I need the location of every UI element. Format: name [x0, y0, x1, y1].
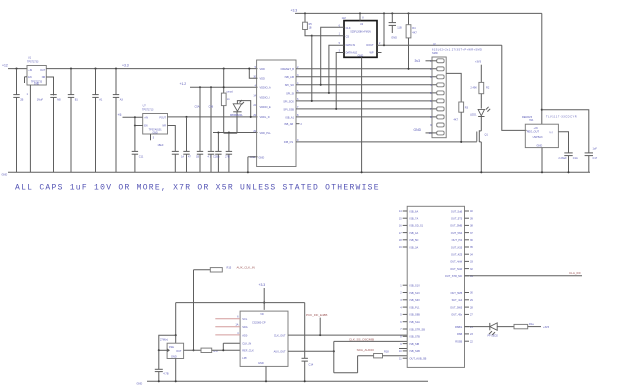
wire OUT_STR long	[465, 271, 583, 276]
svg-text:3v3: 3v3	[415, 59, 421, 63]
svg-text:AD0: AD0	[242, 333, 248, 337]
svg-text:2B: 2B	[20, 98, 23, 102]
wire SPI net w2	[296, 73, 437, 77]
regulator U6	[522, 114, 577, 147]
svg-text:OUT_5N4: OUT_5N4	[451, 231, 463, 235]
svg-text:34: 34	[470, 252, 473, 256]
wire U7 EN	[134, 124, 143, 126]
svg-text:33: 33	[470, 260, 473, 264]
wire reg out left	[502, 45, 527, 130]
svg-text:11: 11	[399, 356, 402, 360]
svg-text:B1: B1	[75, 98, 79, 102]
svg-text:ISB_SIB: ISB_SIB	[410, 342, 420, 346]
svg-text:40: 40	[470, 209, 473, 213]
svg-text:37: 37	[470, 231, 473, 235]
svg-text:19: 19	[399, 245, 402, 249]
svg-text:7: 7	[400, 327, 402, 331]
svg-text:ISB_SD_S1: ISB_SD_S1	[410, 224, 424, 228]
svg-text:+IN: +IN	[28, 69, 32, 72]
wire U1 NR to C2	[46, 77, 53, 95]
connector J2	[429, 42, 483, 138]
wire AD0	[215, 331, 240, 335]
svg-text:EN: EN	[28, 76, 32, 79]
svg-text:CLA_IFF: CLA_IFF	[569, 271, 581, 275]
svg-text:4K7: 4K7	[453, 118, 458, 122]
svg-text:CLK_SS_OSC48B: CLK_SS_OSC48B	[349, 337, 374, 341]
svg-text:ISB_S1X: ISB_S1X	[410, 284, 421, 288]
svg-text:SCL: SCL	[242, 317, 248, 321]
wire reg in branch	[542, 110, 589, 153]
svg-text:1B: 1B	[309, 26, 312, 29]
svg-text:CLK: CLK	[346, 26, 351, 30]
svg-text:LED1: LED1	[470, 112, 477, 116]
capacitor C16	[558, 132, 578, 173]
svg-text:22: 22	[470, 339, 473, 343]
svg-text:cmod: cmod	[227, 90, 234, 94]
svg-text:SPI_SI: SPI_SI	[286, 91, 294, 95]
svg-text:SPI_SCK: SPI_SCK	[283, 99, 294, 103]
svg-text:SPI_SSB: SPI_SSB	[283, 107, 294, 111]
node +12 label dot	[15, 68, 17, 70]
svg-text:PCK_FIF_E48B: PCK_FIF_E48B	[306, 313, 327, 317]
resistor R2	[470, 82, 489, 108]
ferrite bead L1	[221, 68, 233, 134]
svg-text:+IN: +IN	[144, 117, 148, 120]
svg-text:WP: WP	[369, 51, 373, 55]
svg-text:GM: GM	[342, 17, 346, 20]
wire reg gnd	[541, 148, 543, 173]
wire SPI net w1	[296, 65, 437, 69]
svg-text:U7: U7	[143, 105, 147, 108]
wire GND to J2 pin10	[414, 128, 437, 133]
svg-text:C2Ba: C2Ba	[213, 154, 220, 158]
svg-text:1uF: 1uF	[593, 146, 598, 150]
wire osc clk fork	[222, 343, 240, 351]
svg-text:CS: CS	[346, 35, 350, 39]
svg-text:27B: 27B	[225, 154, 230, 158]
ground rail top	[2, 171, 591, 176]
svg-text:GND: GND	[258, 361, 264, 365]
svg-text:ISB_5D: ISB_5D	[410, 238, 419, 242]
svg-text:11B: 11B	[397, 26, 402, 30]
capacitor C6	[195, 86, 204, 172]
wire U1 EN	[25, 77, 29, 96]
capacitor C11	[132, 117, 144, 172]
svg-text:+3V3: +3V3	[475, 59, 482, 63]
svg-text:ISB_S1A: ISB_S1A	[410, 320, 421, 324]
svg-text:R3: R3	[465, 105, 469, 109]
svg-text:M0: M0	[57, 98, 61, 102]
transistor Q1	[477, 117, 489, 173]
svg-text:ISB_S6X: ISB_S6X	[410, 298, 421, 302]
wire CS gnd	[265, 366, 267, 381]
oscillator X1	[160, 338, 184, 359]
capacitor C9a	[181, 116, 191, 172]
wire aux drop	[333, 341, 335, 372]
svg-text:47: 47	[188, 154, 191, 158]
svg-text:4: 4	[400, 305, 402, 309]
svg-text:14: 14	[399, 209, 402, 213]
svg-text:R15: R15	[227, 266, 232, 270]
svg-text:OUT_STR_MC: OUT_STR_MC	[445, 274, 462, 278]
svg-text:4K7: 4K7	[412, 31, 417, 35]
wire U1 GND	[29, 85, 31, 172]
svg-text:32: 32	[470, 267, 473, 271]
wire +12 input	[2, 64, 27, 69]
wire SPI net w3	[296, 81, 437, 85]
svg-text:R18: R18	[384, 350, 389, 354]
svg-text:28: 28	[470, 305, 473, 309]
svg-text:OUT_5M5: OUT_5M5	[450, 291, 462, 295]
svg-text:GND: GND	[414, 128, 422, 132]
capacitor C13	[225, 131, 232, 172]
svg-text:61SL62+2x1.27/3ST+P+WR+SMD: 61SL62+2x1.27/3ST+P+WR+SMD	[432, 47, 482, 51]
svg-text:SPI_SO: SPI_SO	[285, 83, 294, 87]
svg-text:VDDIO_A: VDDIO_A	[260, 86, 271, 90]
svg-text:GND: GND	[152, 132, 158, 135]
wire flash pin4	[335, 50, 344, 110]
svg-text:35: 35	[470, 245, 473, 249]
wire +3.3 bottom	[259, 283, 266, 310]
wire LED2 net	[465, 326, 490, 328]
LED D3	[488, 323, 515, 338]
diode D1	[224, 100, 251, 133]
svg-text:16: 16	[399, 224, 402, 228]
svg-text:38: 38	[470, 224, 473, 228]
svg-text:S25FL208K+FM1N: S25FL208K+FM1N	[350, 31, 371, 34]
svg-text:ISB_S2B: ISB_S2B	[410, 349, 421, 353]
capacitor C8a NR	[157, 126, 178, 173]
svg-text:OUT_AUB_SB: OUT_AUB_SB	[410, 357, 427, 361]
wire I2C SDA	[215, 323, 240, 327]
svg-text:6: 6	[237, 315, 239, 319]
svg-text:1: 1	[27, 92, 29, 96]
resistor R19	[514, 322, 550, 329]
svg-text:9: 9	[400, 342, 402, 346]
wire flash SO long	[377, 42, 502, 46]
svg-text:GND: GND	[2, 173, 8, 177]
wire AUX_OUT stub	[288, 350, 334, 352]
svg-text:39: 39	[470, 216, 473, 220]
svg-text:ALL CAPS 1uF 10V OR MORE, X7R: ALL CAPS 1uF 10V OR MORE, X7R OR X5R UNL…	[15, 184, 380, 193]
resistor R5 pullup	[303, 13, 313, 36]
svg-text:U2: U2	[360, 23, 364, 26]
svg-text:ISB_PL1: ISB_PL1	[410, 305, 421, 309]
svg-text:OUT_4Z5: OUT_4Z5	[451, 253, 463, 257]
svg-text:+3V3: +3V3	[543, 325, 550, 329]
svg-text:ISB_S7B: ISB_S7B	[410, 335, 421, 339]
svg-text:RSSB: RSSB	[455, 340, 462, 344]
svg-text:ISB_4A: ISB_4A	[410, 231, 419, 235]
wire loop top	[176, 302, 305, 304]
svg-text:USP5A3: USP5A3	[533, 135, 543, 139]
svg-text:3: 3	[400, 298, 402, 302]
wire aux riser	[192, 270, 194, 352]
svg-text:DOUT: DOUT	[366, 43, 374, 47]
wire flash WP stub	[377, 52, 382, 54]
svg-text:EN: EN	[144, 125, 148, 128]
svg-text:C11: C11	[139, 154, 144, 158]
capacitor C3	[68, 68, 79, 173]
wire bottom jog	[334, 356, 358, 373]
wire SPI net w7	[296, 113, 437, 117]
LED D2	[470, 107, 490, 117]
svg-text:1B: 1B	[196, 154, 199, 158]
svg-text:+3.3: +3.3	[122, 63, 129, 67]
svg-text:ISB_AB: ISB_AB	[284, 122, 293, 126]
capacitor C2	[37, 95, 62, 173]
svg-text:REG_OUT: REG_OUT	[527, 130, 540, 134]
svg-text:R17: R17	[214, 349, 219, 353]
svg-text:5: 5	[400, 313, 402, 317]
svg-text:VD: VD	[260, 312, 264, 316]
wire VDD_PLL y132.5	[213, 132, 258, 134]
svg-text:CLK_OUT: CLK_OUT	[274, 333, 286, 337]
wire reg in top	[541, 13, 543, 124]
svg-text:VDDL_D: VDDL_D	[260, 115, 270, 119]
svg-text:29: 29	[470, 298, 473, 302]
svg-text:NR: NR	[163, 125, 167, 128]
capacitor C4	[92, 68, 103, 173]
svg-text:CS2000-CP: CS2000-CP	[252, 321, 266, 325]
op-amp U3 iCE40 MCU box	[250, 60, 303, 167]
node PCK riser	[306, 313, 327, 335]
svg-text:OUT_5W5: OUT_5W5	[450, 305, 463, 309]
svg-text:78A: 78A	[529, 119, 534, 122]
svg-text:OUT: OUT	[176, 349, 182, 353]
wire flash SI	[328, 42, 344, 94]
svg-text:ISB_3A: ISB_3A	[410, 245, 419, 249]
svg-text:R2: R2	[486, 85, 490, 89]
svg-text:GND: GND	[34, 83, 40, 86]
svg-text:VDDIO_I: VDDIO_I	[260, 95, 270, 99]
svg-text:OUT: OUT	[40, 69, 46, 72]
microcontroller U4	[399, 206, 474, 367]
svg-text:+3.3: +3.3	[259, 283, 266, 287]
svg-text:SDA_AUDIO: SDA_AUDIO	[357, 348, 375, 352]
svg-text:ISB_S9B: ISB_S9B	[410, 313, 421, 317]
resistor R4	[406, 13, 417, 69]
svg-text:ISB_A1: ISB_A1	[285, 115, 294, 119]
svg-text:36: 36	[470, 238, 473, 242]
svg-text:10: 10	[399, 349, 402, 353]
svg-text:5: 5	[153, 136, 155, 139]
svg-text:AUX_CLK_IN: AUX_CLK_IN	[237, 266, 255, 270]
wire osc gnd	[175, 359, 177, 382]
svg-text:2.2NuF: 2.2NuF	[558, 156, 567, 160]
svg-text:CLK_IN: CLK_IN	[242, 342, 251, 346]
svg-text:OUT_K55: OUT_K55	[451, 245, 463, 249]
regulator U7	[142, 105, 168, 135]
svg-text:4: 4	[237, 331, 239, 335]
svg-text:GND: GND	[391, 36, 397, 40]
svg-text:IOB_CS: IOB_CS	[284, 140, 294, 144]
svg-text:+5: +5	[118, 113, 122, 117]
svg-text:OUT_5sW: OUT_5sW	[450, 267, 462, 271]
wire +3.3 rail	[46, 63, 257, 68]
svg-text:+12: +12	[2, 64, 8, 68]
resistor R3 4K7	[446, 73, 468, 143]
svg-text:VDDIO_E: VDDIO_E	[260, 105, 271, 109]
wire CLK_OUT net	[288, 334, 407, 336]
svg-text:U1: U1	[28, 56, 32, 59]
svg-text:POUT: POUT	[159, 117, 166, 120]
svg-text:Q1: Q1	[485, 133, 489, 137]
svg-text:R4: R4	[412, 26, 416, 30]
svg-text:C17: C17	[593, 156, 598, 160]
svg-text:(+): (+)	[550, 131, 553, 134]
wire flash GND drop	[361, 57, 363, 172]
clock generator U5 CS2000	[240, 311, 288, 366]
svg-text:GND: GND	[137, 381, 143, 385]
svg-text:GND: GND	[259, 155, 265, 159]
svg-text:SMD: SMD	[432, 51, 438, 55]
resistor R17	[184, 348, 241, 353]
wire flash VCC stub	[359, 13, 361, 20]
wire SPI net w6	[296, 105, 437, 109]
svg-text:VDD: VDD	[260, 77, 266, 81]
svg-text:TPS71733: TPS71733	[27, 61, 39, 64]
wire SPI net w5	[296, 97, 437, 101]
svg-text:NR: NR	[42, 76, 46, 79]
regulator U1	[27, 56, 46, 85]
svg-text:DATA ALE: DATA ALE	[346, 51, 358, 55]
svg-text:A1: A1	[99, 98, 103, 102]
svg-text:OUT_5uB: OUT_5uB	[451, 209, 463, 213]
svg-text:1A: 1A	[181, 154, 184, 158]
svg-text:SDA: SDA	[242, 325, 248, 329]
svg-text:4.7: 4.7	[208, 154, 212, 158]
svg-text:15: 15	[399, 216, 402, 220]
resistor R18	[358, 350, 408, 358]
wire 3v3 to J2 pin1	[415, 59, 437, 63]
svg-text:C1A: C1A	[573, 156, 578, 160]
svg-text:+3.3: +3.3	[291, 9, 298, 13]
svg-text:DATA IN: DATA IN	[346, 43, 356, 47]
svg-text:GND: GND	[358, 53, 364, 57]
capacitor C1	[13, 69, 23, 173]
capacitor C19	[389, 13, 402, 39]
wire osc enable	[158, 335, 176, 351]
wire CLK_SS net	[334, 337, 407, 341]
svg-text:27: 27	[470, 313, 473, 317]
wire flash DOUT pullup	[383, 13, 385, 45]
svg-text:TLV1117-33CDCYR: TLV1117-33CDCYR	[546, 114, 577, 118]
svg-text:18: 18	[399, 238, 402, 242]
svg-text:+IN: +IN	[534, 126, 538, 130]
svg-text:1A: 1A	[235, 323, 238, 327]
wire +3.3 top rail	[291, 9, 542, 15]
svg-text:27M(+): 27M(+)	[160, 338, 168, 342]
svg-text:GND: GND	[537, 144, 543, 148]
wire VDDL y116.9	[168, 116, 258, 118]
capacitor C7	[208, 86, 215, 172]
wire MCU GND drop	[248, 157, 258, 173]
svg-text:1NuF: 1NuF	[37, 98, 44, 102]
capacitor C14	[302, 303, 314, 382]
svg-text:GND: GND	[171, 354, 177, 358]
wire MCU VDD2 jog	[248, 68, 257, 79]
wire SDA_AUDIO	[357, 348, 408, 352]
svg-text:8: 8	[362, 17, 364, 20]
resistor R15	[194, 266, 255, 272]
svg-text:2: 2	[400, 291, 402, 295]
svg-text:C5A: C5A	[195, 105, 200, 109]
svg-text:C14: C14	[309, 363, 314, 367]
capacitor C12	[213, 131, 222, 172]
svg-text:ISB_S13: ISB_S13	[410, 291, 421, 295]
svg-text:LPF: LPF	[242, 356, 247, 360]
svg-text:RSBG: RSBG	[455, 325, 462, 329]
svg-text:RSB: RSB	[457, 332, 463, 336]
flash memory U2	[342, 17, 377, 58]
capacitor C17	[585, 146, 598, 172]
ground rail bottom	[137, 380, 429, 385]
svg-text:PF LED2: PF LED2	[488, 334, 499, 338]
svg-text:4.7B: 4.7B	[163, 372, 169, 376]
svg-text:R1a: R1a	[529, 322, 534, 326]
svg-text:AUX_OUT: AUX_OUT	[274, 349, 286, 353]
svg-text:ISB_LIB: ISB_LIB	[285, 75, 295, 79]
svg-text:C56: C56	[209, 105, 214, 109]
svg-text:30: 30	[470, 291, 473, 295]
svg-text:VDD_PLL: VDD_PLL	[260, 131, 272, 135]
svg-text:2: 2	[301, 123, 303, 126]
svg-text:REF_CLK: REF_CLK	[242, 349, 254, 353]
capacitor C5	[113, 68, 124, 173]
svg-text:1: 1	[400, 283, 402, 287]
svg-text:6: 6	[400, 320, 402, 324]
wire osc vdd drop	[175, 303, 177, 344]
svg-text:OUT_5T3: OUT_5T3	[451, 217, 463, 221]
svg-text:2.49K: 2.49K	[470, 85, 477, 89]
wire flash CLK	[320, 24, 344, 86]
svg-text:A3: A3	[120, 98, 124, 102]
svg-text:L1: L1	[227, 97, 230, 101]
svg-text:ISB_6A: ISB_6A	[410, 209, 419, 213]
wire SPI net w4	[296, 89, 437, 93]
wire I2C SCL	[215, 315, 240, 319]
wire flash CS	[311, 33, 344, 102]
capacitor C15	[155, 350, 169, 381]
svg-text:OUT_45x: OUT_45x	[451, 313, 463, 317]
svg-text:TPS71713: TPS71713	[142, 109, 154, 112]
svg-text:CRESET_B: CRESET_B	[281, 67, 295, 71]
wire +1.2 rail	[180, 82, 258, 87]
note all-caps text	[15, 184, 380, 193]
svg-text:FSE: FSE	[169, 345, 174, 349]
svg-text:23: 23	[470, 332, 473, 336]
svg-text:OUT_4xW: OUT_4xW	[450, 260, 462, 264]
svg-text:ISB_7A: ISB_7A	[410, 217, 419, 221]
svg-text:OUT_PI4: OUT_PI4	[452, 238, 463, 242]
svg-text:VDD: VDD	[260, 67, 266, 71]
wire +3V3 LED branch	[475, 59, 482, 82]
svg-text:ISB_STR_SB: ISB_STR_SB	[410, 327, 426, 331]
svg-text:OUT_5MB: OUT_5MB	[450, 224, 462, 228]
wire +5 input	[118, 113, 143, 118]
svg-text:SUT_4x4: SUT_4x4	[452, 298, 463, 302]
wire U7 GND stub	[151, 134, 155, 140]
svg-text:+1.2: +1.2	[180, 82, 187, 86]
svg-text:17: 17	[399, 231, 402, 235]
wire MOSFET gate net y142	[296, 138, 477, 142]
svg-text:1BuF: 1BuF	[157, 143, 164, 147]
